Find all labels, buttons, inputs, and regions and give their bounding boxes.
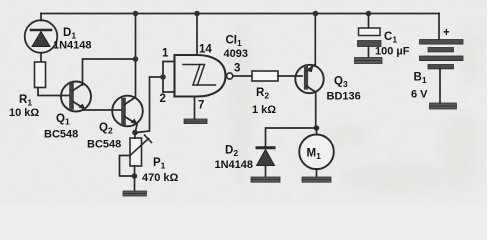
battery B1 bbox=[420, 40, 464, 69]
svg-text:1N4148: 1N4148 bbox=[215, 159, 254, 171]
node junction dot gate input bbox=[160, 74, 166, 80]
photodiode D1 bbox=[25, 20, 58, 53]
wire D2 to ground bbox=[265, 166, 267, 178]
schmitt trigger glyph bbox=[183, 65, 216, 86]
svg-text:BC548: BC548 bbox=[44, 129, 78, 141]
motor M1 bbox=[299, 135, 334, 170]
svg-text:1: 1 bbox=[162, 48, 169, 60]
svg-text:10 kΩ: 10 kΩ bbox=[9, 107, 39, 119]
svg-text:+: + bbox=[443, 27, 450, 39]
node junction dot pin14 rail bbox=[194, 11, 200, 17]
node junction dot motor bbox=[314, 125, 320, 131]
wire D1 to R1 bbox=[40, 53, 42, 62]
resistor R1 bbox=[35, 62, 46, 88]
wire Q1 emitter to Q2 base bbox=[84, 109, 122, 111]
wire Q2 emitter down to node bbox=[135, 125, 137, 134]
svg-text:1N4148: 1N4148 bbox=[53, 40, 92, 52]
svg-text:4093: 4093 bbox=[224, 48, 248, 60]
node junction dot P1 bottom bbox=[132, 173, 138, 179]
wire battery to ground bbox=[439, 69, 441, 103]
ground C1 bbox=[355, 58, 383, 64]
svg-text:470 kΩ: 470 kΩ bbox=[142, 172, 179, 184]
node junction dot emitter P1 bbox=[132, 130, 138, 136]
wire C1 to ground bbox=[368, 47, 370, 58]
wire top supply rail bbox=[41, 13, 439, 15]
wire rail to C1 bbox=[368, 14, 370, 29]
ground P1 bbox=[123, 191, 147, 196]
potentiometer P1 wiper arrow bbox=[130, 135, 152, 156]
wire Q3 collector down to node bbox=[315, 92, 317, 128]
svg-text:BC548: BC548 bbox=[87, 139, 121, 151]
output bubble pin 3 bbox=[227, 73, 233, 79]
wire Q1 collector up to node bbox=[83, 59, 136, 85]
wire pin 7 to ground bbox=[194, 97, 196, 120]
wire node to motor M1 bbox=[316, 128, 318, 135]
node junction dot rail A bbox=[133, 11, 139, 17]
wire D1 top lead bbox=[40, 14, 42, 21]
svg-text:6 V: 6 V bbox=[411, 89, 428, 101]
op-amp gate CI1 4093 body bbox=[175, 55, 226, 97]
svg-text:1 kΩ: 1 kΩ bbox=[252, 104, 276, 116]
wire P1 wiper bypass to bottom bbox=[120, 156, 135, 177]
transistor Q1 bbox=[61, 82, 91, 112]
svg-text:100 µF: 100 µF bbox=[375, 46, 410, 58]
wire rail to battery bbox=[438, 14, 440, 40]
svg-text:BD136: BD136 bbox=[327, 91, 361, 103]
ground battery bbox=[430, 103, 457, 109]
diode D2 bbox=[257, 148, 275, 166]
wire node up to gate inputs bbox=[137, 77, 164, 133]
wire node to D2 bbox=[266, 128, 317, 146]
node junction dot collector rail bbox=[133, 56, 139, 62]
ground gate bbox=[184, 119, 207, 124]
wire P1 top bbox=[134, 133, 136, 139]
wire input bracket pins 1 and 2 bbox=[163, 62, 175, 93]
potentiometer P1 body bbox=[130, 138, 142, 166]
wire M1 to ground bbox=[316, 169, 318, 177]
svg-text:3: 3 bbox=[234, 63, 240, 75]
ground D2 bbox=[251, 177, 280, 182]
wire gate output to R2 bbox=[233, 75, 252, 77]
wire R2 to Q3 base bbox=[278, 75, 302, 77]
svg-text:14: 14 bbox=[199, 44, 212, 56]
node junction dot C1 rail bbox=[366, 11, 372, 17]
transistor Q3 bbox=[295, 64, 323, 93]
wire P1 bottom to ground bbox=[134, 166, 136, 191]
capacitor C1 bbox=[358, 28, 382, 47]
wire supply rail down to node and Q2 collector bbox=[135, 14, 137, 98]
resistor R2 bbox=[252, 71, 278, 81]
wire Q3 emitter up to rail bbox=[314, 14, 316, 66]
wire R1 to Q1 base bbox=[38, 88, 71, 96]
node junction dot Q3 rail bbox=[313, 11, 319, 17]
transistor Q2 bbox=[112, 96, 143, 127]
svg-text:7: 7 bbox=[198, 100, 204, 112]
wire pin 14 to rail bbox=[196, 14, 198, 56]
svg-text:2: 2 bbox=[160, 93, 166, 105]
ground M1 bbox=[302, 177, 331, 182]
